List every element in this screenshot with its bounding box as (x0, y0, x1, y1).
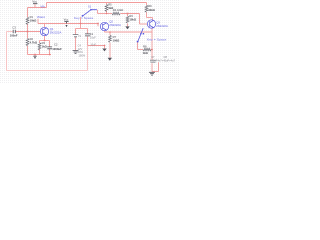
svg-text:R1: R1 (30, 15, 34, 19)
svg-text:V1: V1 (78, 34, 82, 38)
wire: V1 top lead (75, 29, 77, 35)
svg-text:Key = Space: Key = Space (147, 38, 167, 42)
wire: C1 ground run (88, 45, 105, 47)
capacitor C5 (bottom right) (150, 60, 156, 62)
resistor R5 (vertical, top middle) (105, 4, 108, 11)
svg-text:Vcc: Vcc (32, 0, 37, 4)
svg-text:C7: C7 (151, 55, 155, 59)
wire: drop to Q3 base level (139, 14, 141, 25)
wire: R1 bottom (27, 24, 29, 32)
wire: Q1 emitter (44, 36, 46, 41)
svg-text:C3: C3 (12, 26, 16, 30)
wire: down to C5 (151, 50, 153, 60)
capacitor C2 (47, 47, 52, 49)
svg-text:Vbias1: Vbias1 (37, 15, 45, 19)
wire: bottom right run (152, 71, 159, 73)
resistor R2 (26, 38, 29, 45)
svg-text:10kΩ: 10kΩ (30, 19, 37, 23)
capacitor C1 (85, 34, 90, 36)
wire: source tee horizontal (76, 28, 88, 30)
power symbol Vcc2 (64, 22, 68, 24)
wire: V1 bottom lead (75, 37, 77, 50)
svg-text:2N2222A: 2N2222A (109, 23, 121, 27)
wire: switch S1 drop (80, 17, 82, 23)
svg-text:180%: 180% (79, 54, 86, 58)
resistor R9 (right vertical from top rail) (145, 5, 148, 12)
resistor R4 (horizontal) (112, 12, 120, 15)
switch S1 (83, 10, 97, 16)
wire: emitter rail (105, 31, 153, 33)
wire: Q3 emitter down (151, 32, 153, 50)
resistor R3b (38, 43, 41, 50)
wire: R2 bottom (27, 46, 29, 55)
svg-text:1000uF: 1000uF (52, 47, 62, 51)
wire: R5 top stub (106, 3, 108, 5)
wire: Vcc1 horizontal to R1 column (28, 7, 47, 9)
svg-text:S1: S1 (88, 5, 92, 9)
wire: R5 bottom stub (106, 11, 108, 14)
transistor Q1 (40, 27, 48, 35)
wire: Q3 emitter stub (151, 28, 153, 32)
wire: emitter node horizontal (40, 40, 50, 42)
ground gnd2 (under rail 2) (33, 56, 36, 58)
wire: top rail (47, 2, 147, 4)
svg-text:Key = Space: Key = Space (74, 16, 94, 20)
wire: C2 top (49, 41, 51, 47)
wire: down to R1 top (27, 8, 29, 18)
svg-text:100Ω: 100Ω (113, 38, 120, 42)
wire: R6 top stub (109, 32, 111, 35)
wire: Q3 collector stub (152, 18, 154, 20)
svg-text:R8: R8 (143, 45, 147, 49)
resistor R8 (horizontal bottom right) (143, 48, 151, 51)
svg-text:50%: 50% (78, 50, 84, 54)
resistor R6 (vertical, to ground) (126, 16, 129, 23)
svg-text:R4 10kΩ: R4 10kΩ (113, 8, 124, 12)
wire: to R8 (138, 49, 144, 51)
wire: bottom rail (7, 70, 88, 72)
wire: C5 bottom (151, 63, 153, 71)
ground gnd4 (arrow under R7) (108, 58, 112, 61)
wire: C3 left lead (7, 31, 13, 33)
ground gnd3 (arrow under C1 run) (102, 49, 106, 52)
wire: into Q2 (97, 24, 99, 27)
wire: C1 top lead (87, 29, 89, 34)
svg-text:C4: C4 (78, 43, 82, 47)
svg-text:R6: R6 (129, 14, 133, 18)
wire: ground rail 2 (28, 54, 52, 56)
power symbol Vcc1 (33, 3, 37, 5)
svg-text:100uF4n7+45uF+4u7: 100uF4n7+45uF+4u7 (150, 59, 176, 63)
svg-text:10kΩ: 10kΩ (148, 8, 155, 12)
svg-text:1kΩ: 1kΩ (42, 44, 48, 48)
svg-text:2N2222A: 2N2222A (156, 24, 168, 28)
wire: R3 bottom (146, 12, 148, 17)
wire: riser to top rail (46, 3, 48, 8)
wire: C3 right to Q1 base (16, 31, 41, 33)
svg-text:1kΩ: 1kΩ (143, 51, 149, 55)
svg-text:2N2222A: 2N2222A (50, 31, 62, 35)
wire: top rail into R3 (146, 3, 148, 6)
wire: C1 bottom lead (87, 36, 89, 45)
ground gnd6 (bottom right) (149, 72, 155, 75)
wire: R3b bottom (39, 49, 41, 54)
wire: drop to source tee (80, 24, 82, 29)
svg-text:R9: R9 (148, 4, 152, 8)
svg-text:R5: R5 (108, 3, 112, 7)
wire: right riser (158, 62, 160, 71)
switch S2 (138, 28, 143, 41)
svg-text:R2: R2 (30, 37, 34, 41)
wire: Q1 collector stub (44, 24, 46, 28)
svg-text:10uF: 10uF (90, 43, 96, 46)
wire: R3b top (39, 41, 41, 43)
wire: stub to gnd arrow (104, 46, 106, 49)
ground gnd5 (arrow under R6) (125, 26, 129, 29)
svg-text:C8: C8 (164, 55, 168, 59)
svg-text:Vcc: Vcc (64, 18, 69, 22)
wire: C2 bottom (49, 49, 51, 55)
wire: node to R4 left (98, 13, 113, 15)
node label stub Vbias1 (37, 19, 39, 24)
svg-text:10kΩ: 10kΩ (129, 18, 136, 22)
wire: left riser (6, 32, 8, 71)
svg-text:C2: C2 (54, 43, 58, 47)
svg-text:R7: R7 (113, 35, 117, 39)
battery V1 (73, 35, 79, 37)
svg-text:100nF: 100nF (10, 33, 18, 37)
junction dots (27, 31, 29, 33)
wire: Vcc rail 2 (38, 23, 98, 25)
wire: gnd2 stub (34, 55, 36, 56)
wire: Q2 emitter stub (104, 31, 106, 32)
transistor Q3 (147, 20, 155, 28)
transistor Q2 (100, 22, 108, 30)
wire: to Q3 base (140, 23, 148, 25)
capacitor C3 (13, 30, 15, 33)
wire: riser to bottom rail (87, 46, 89, 71)
wire: Vcc1 stub (34, 4, 36, 7)
resistor R1 (26, 17, 29, 24)
svg-text:10uF: 10uF (90, 35, 96, 39)
resistor R7 (emitter resistor) (109, 35, 112, 42)
wire: R2 top (27, 32, 29, 39)
ground gnd1 (under V1) (73, 51, 79, 54)
svg-text:Vfb: Vfb (40, 4, 45, 8)
wire: over to Q3 collector (147, 17, 153, 19)
svg-text:4.7kΩ: 4.7kΩ (30, 40, 38, 44)
wire: R4 right to drop (121, 13, 140, 15)
wire: switch S1 output drop (97, 10, 99, 14)
wire: R8 right (151, 49, 153, 51)
svg-text:R3: R3 (42, 41, 46, 45)
wire: S2 bottom drop (137, 42, 139, 50)
wire: R6 bottom stem (109, 43, 111, 58)
